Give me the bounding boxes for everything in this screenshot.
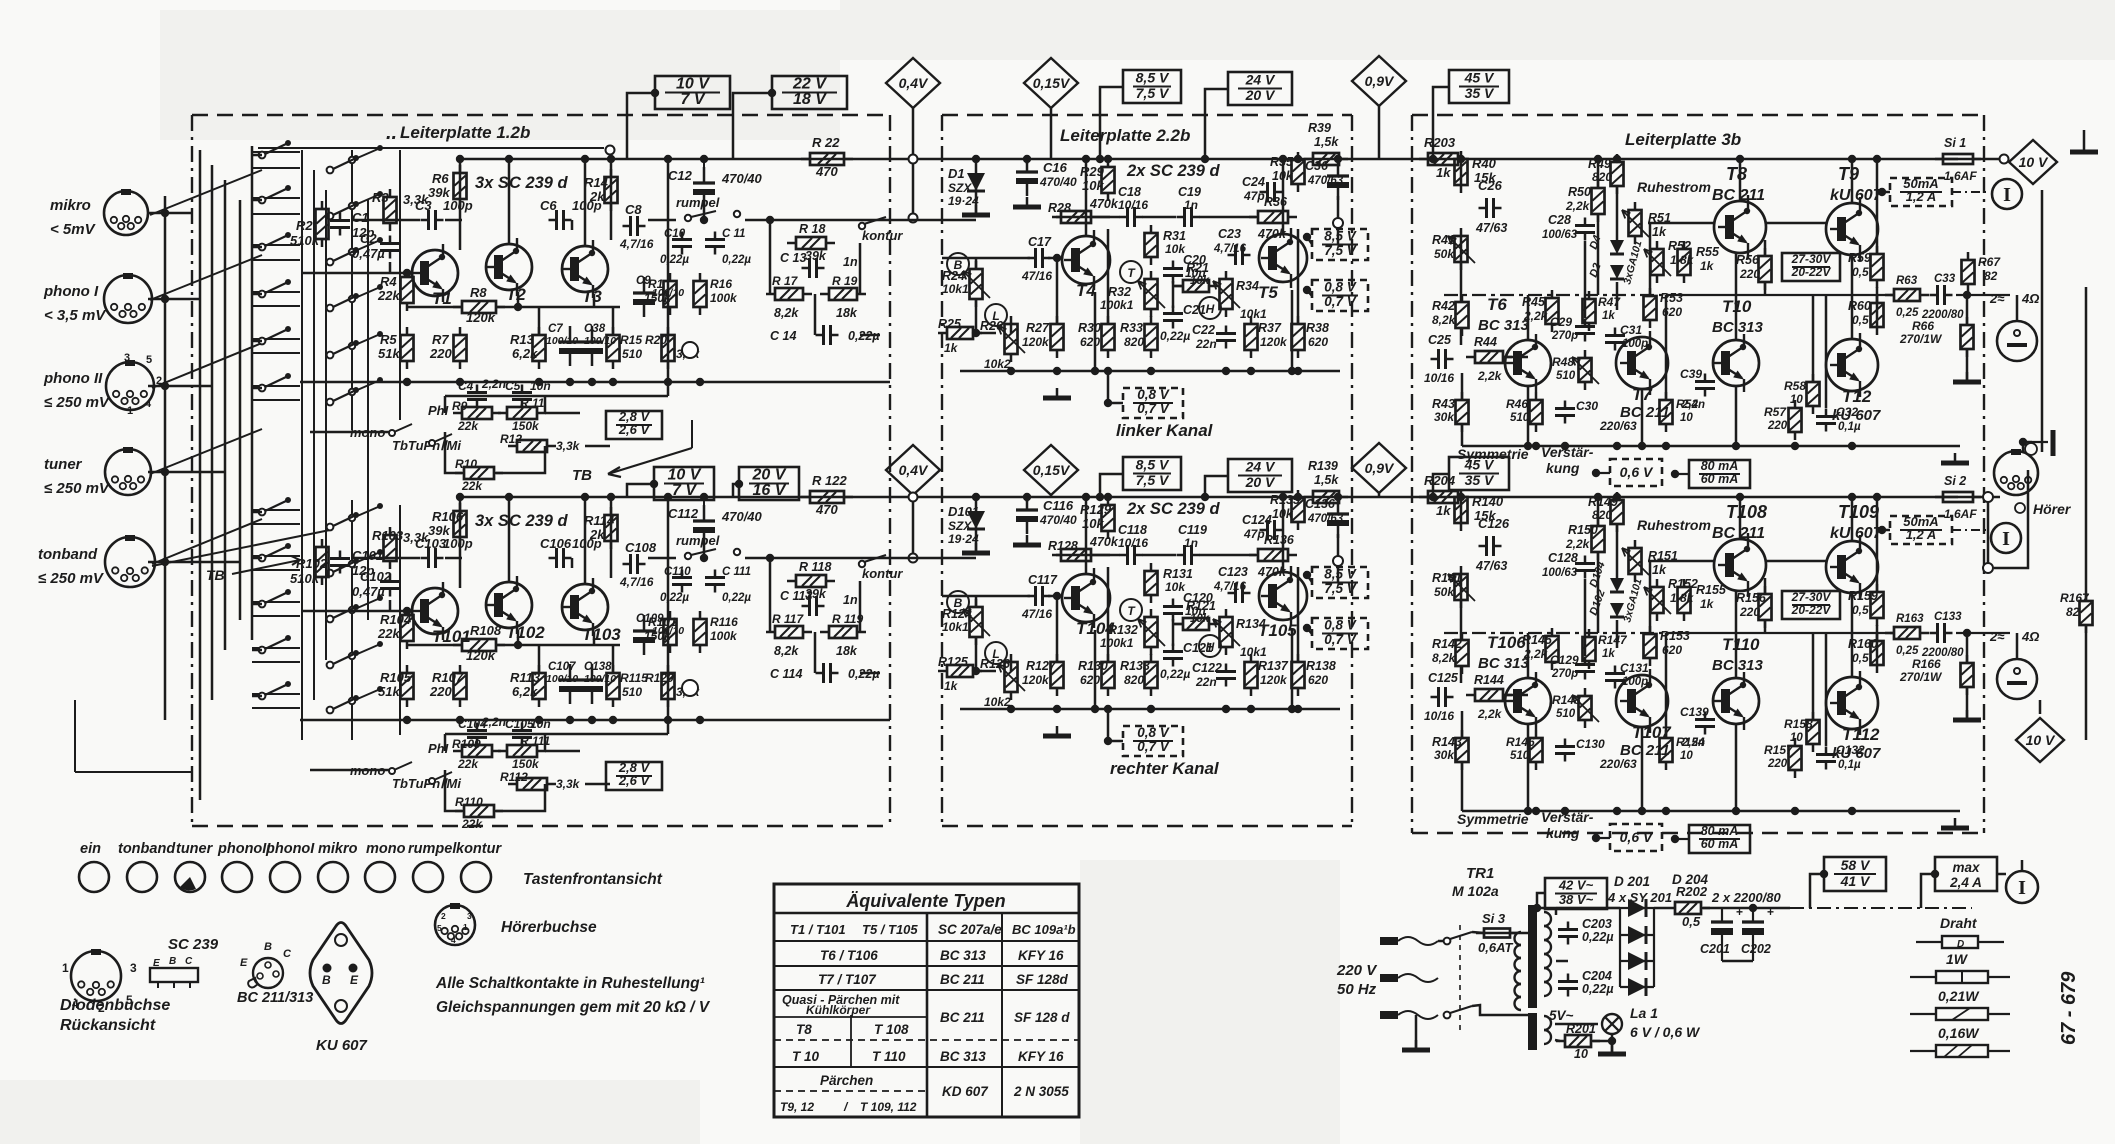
svg-text:R26: R26 [980,319,1004,333]
svg-text:< 3,5 mV: < 3,5 mV [44,307,107,324]
switch contact col2 lower [327,695,359,713]
wire [1461,711,1464,738]
switch kontur [859,223,865,229]
wire R50 col [1597,552,1600,633]
svg-text:220/63: 220/63 [1599,419,1637,433]
wire mono link [310,769,390,772]
svg-text:C125: C125 [1428,671,1459,685]
svg-text:470: 470 [815,502,838,517]
svg-text:R166: R166 [1912,657,1941,671]
wire main supply rail lower [462,496,1958,499]
DIN socket [104,273,152,323]
svg-text:0,8 V: 0,8 V [1324,618,1357,633]
svg-text:7 V: 7 V [672,482,697,499]
wire R58 col [1812,295,1815,382]
voltage label box [1824,857,1886,891]
voltage label box [1123,725,1183,756]
wire [1461,762,1464,811]
wire [508,159,511,244]
svg-text:620: 620 [1080,673,1100,687]
wire H-T link [1173,285,1183,288]
svg-text:R 119: R 119 [832,612,863,626]
switch contact upper bank [259,279,291,297]
svg-text:C117: C117 [1028,573,1058,587]
resistor R31 10k [1145,225,1158,265]
resistor R29 10k [1102,159,1115,201]
svg-text:47/63: 47/63 [1475,221,1507,235]
svg-text:0,7 V: 0,7 V [1324,632,1357,647]
svg-text:R28: R28 [1048,201,1071,215]
svg-text:R50: R50 [1568,185,1591,199]
svg-text:R54: R54 [1676,397,1698,411]
wire [733,484,739,497]
svg-text:C29: C29 [1550,315,1572,329]
resistor R133 820 [1145,654,1158,696]
svg-text:470/40: 470/40 [721,171,763,186]
wire C29 col [1584,579,1587,656]
svg-text:80 mA: 80 mA [1701,459,1739,473]
diode D4 [1610,240,1624,254]
svg-text:10/16: 10/16 [1118,198,1148,212]
svg-text:470/40: 470/40 [721,509,763,524]
wire [1675,838,1689,840]
svg-text:R154: R154 [1676,735,1705,749]
resistor R40 15k [1455,151,1468,193]
svg-text:0,6 V: 0,6 V [1620,464,1654,480]
legend 0,21W resistor [1910,988,2010,1020]
resistor R167 82 [2080,593,2093,633]
wire board3 bottom rail [1462,810,1960,813]
svg-text:TbTuPhⅡMi: TbTuPhⅡMi [392,438,461,453]
wire [584,497,587,584]
capacitor C125 10/16 [1431,687,1454,707]
switch contact col2 [327,340,359,358]
circled L [985,304,1007,326]
svg-text:C109: C109 [636,613,664,625]
switch kontur [859,561,865,567]
svg-text:R147: R147 [1598,633,1628,647]
wire [252,557,262,560]
resistor R146 510 [1530,730,1543,770]
svg-text:C 13: C 13 [780,251,806,265]
svg-text:B: B [264,941,272,953]
svg-text:10/16: 10/16 [1118,536,1148,550]
svg-text:R43: R43 [1432,397,1455,411]
wire R50 col [1597,214,1600,295]
svg-text:22n: 22n [1195,337,1217,351]
wire [1593,1034,1612,1041]
svg-text:C119: C119 [1178,523,1207,537]
svg-text:8,2k: 8,2k [1432,313,1457,327]
svg-text:0,1µ: 0,1µ [1838,759,1861,771]
resistor R159 0,5 [1871,584,1884,626]
trimmer R24 10k1 [970,261,983,307]
svg-text:C25: C25 [1428,333,1452,347]
svg-text:1,6AF: 1,6AF [1944,507,1977,521]
wire C20-C21 [1172,619,1175,646]
trimmer R41 50k [1455,228,1468,270]
mains switch [1444,925,1472,1030]
svg-text:100k: 100k [710,629,738,643]
wire R26 link [976,670,996,673]
svg-text:≤ 250 mV: ≤ 250 mV [44,394,111,411]
svg-text:C 14: C 14 [770,329,796,343]
capacitor C12 470/40 [693,167,715,207]
svg-text:18 V: 18 V [793,91,827,108]
svg-text:1,6AF: 1,6AF [1944,169,1977,183]
voltage label box [1312,567,1368,599]
svg-text:22 V: 22 V [792,76,827,93]
svg-text:0,4V: 0,4V [899,462,929,478]
voltage diamond [1352,56,1406,106]
wire kontur line [745,557,905,560]
svg-text:R30: R30 [1078,321,1101,335]
capacitor C9 100/10 [633,277,655,317]
capacitor C2 0,47µ [380,236,400,259]
svg-text:R142: R142 [1432,637,1462,651]
wire secondary top [1537,907,1620,910]
capacitor C8 4,7/16 [623,216,646,236]
wire [1851,159,1854,203]
wire [1810,874,1824,908]
voltage box 10V/7V [655,76,730,110]
svg-text:+: + [1736,905,1743,919]
switch [429,778,435,784]
wire R24 column [975,596,978,606]
DIN socket [105,447,151,495]
svg-text:51k: 51k [378,684,400,699]
svg-text:Pärchen: Pärchen [820,1073,873,1088]
capacitor C11 0,22µ [705,232,725,255]
svg-text:470k: 470k [1089,197,1119,211]
svg-text:220: 220 [429,346,452,361]
svg-text:C 111: C 111 [722,566,751,578]
svg-text:3: 3 [467,911,472,921]
svg-text:R21: R21 [1186,261,1209,275]
svg-text:0,22µ: 0,22µ [1160,329,1190,343]
svg-text:C32: C32 [1836,405,1858,419]
wire [252,649,262,652]
svg-text:R 19: R 19 [832,274,858,288]
wire R58 col [1812,633,1815,720]
svg-text:50k: 50k [1434,585,1455,599]
svg-text:T109: T109 [1838,502,1879,522]
wire mono link [310,431,390,434]
resistor R8 120k [453,301,505,313]
wire dashdot to meter [1952,191,1990,193]
svg-text:270p: 270p [1551,330,1578,342]
svg-text:2,2k: 2,2k [1565,199,1591,213]
wire [1050,495,1053,497]
svg-text:5V~: 5V~ [1549,1008,1574,1023]
svg-text:2x SC 239 d: 2x SC 239 d [1126,162,1221,180]
svg-text:0,4V: 0,4V [899,75,929,91]
svg-text:Leiterplatte 1.2b: Leiterplatte 1.2b [400,123,530,142]
svg-text:0,22µ: 0,22µ [1582,982,1614,996]
wire T3 emitter [593,632,596,645]
wire [252,293,262,296]
wire [1997,873,2006,876]
svg-text:R131: R131 [1163,567,1193,581]
svg-text:10n: 10n [530,717,551,731]
meter I psu [2006,871,2038,903]
resistor R116 100k [694,611,707,653]
svg-text:C30: C30 [1576,399,1598,413]
svg-text:C108: C108 [625,540,657,555]
svg-text:R8: R8 [470,285,487,300]
svg-text:C138: C138 [584,661,612,673]
voltage label box [1228,459,1292,493]
trimmer R148 510 [1579,688,1592,728]
wire mid bus [407,306,462,309]
transistor T7 [1616,331,1668,395]
svg-text:47p: 47p [1243,189,1265,203]
svg-text:7 V: 7 V [680,91,705,108]
resistor R115 510 [607,665,620,707]
wire board2 bottom bus [960,370,1340,373]
switch contact col2 [327,247,359,265]
svg-text:C 114: C 114 [770,667,802,681]
resistor R5 51k [401,327,414,369]
svg-text:R52: R52 [1668,239,1691,253]
resistor R47 1k [1583,291,1596,331]
wire [1616,524,1619,578]
svg-text:100p: 100p [443,536,473,551]
key button ein [79,862,109,892]
svg-text:R201: R201 [1566,1022,1596,1036]
trimmer R48 510 [1579,350,1592,390]
wire [1460,328,1463,345]
capacitor C33 2200/80 [1930,285,1953,305]
svg-text:R136: R136 [1264,533,1295,547]
wire T4 collector [1085,497,1088,574]
wire R26 link [976,332,996,335]
wire tone loop2 [496,446,545,473]
svg-text:rechter Kanal: rechter Kanal [1110,759,1220,778]
transistor T108 [1714,533,1766,597]
switch contact col2 [327,201,359,219]
svg-text:R128: R128 [1048,539,1078,553]
svg-text:R34: R34 [1236,279,1259,293]
wire [2016,633,2019,659]
resistor R137 120k [1245,654,1258,696]
svg-text:T108: T108 [1726,502,1767,522]
voltage label box [1312,229,1368,261]
svg-text:R20: R20 [645,333,667,347]
wire [1882,529,1890,532]
svg-text:100p: 100p [443,198,473,213]
resistor R112 3,3k [508,778,556,790]
svg-text:T5 / T105: T5 / T105 [862,922,918,937]
diode D202 [1628,926,1646,944]
svg-text:1n: 1n [843,255,858,269]
resistor R55 1k [1678,241,1691,283]
table Aequivalente Typen [774,884,1079,1117]
svg-text:SF 128d: SF 128d [1016,972,1069,987]
wire [1851,593,1854,677]
wire dc distribution [1790,907,1972,909]
svg-text:3x SC 239 d: 3x SC 239 d [475,174,569,192]
svg-text:R105: R105 [380,670,412,685]
svg-text:R44: R44 [1474,335,1497,349]
wire C12 stem dashed [703,500,705,510]
resistor R145 2,2k [1546,628,1559,670]
trimmer R152 1,8k [1651,579,1664,621]
capacitor C114 0,22µ [816,663,839,683]
circled B [947,591,969,613]
trimmer R34 10k1 [1220,271,1233,317]
svg-text:2: 2 [441,911,446,921]
wire [2023,441,2032,444]
svg-text:H: H [1206,302,1215,316]
svg-text:7,5 V: 7,5 V [1136,472,1170,488]
wire C36 col [1337,566,1340,582]
svg-text:R143: R143 [1432,735,1462,749]
label TB with arrow [206,556,300,583]
svg-text:C: C [283,948,292,960]
legend Draht resistor [1916,915,2004,950]
switch [429,440,435,446]
wire [1555,908,1558,915]
svg-text:R134: R134 [1236,617,1266,631]
svg-text:0,1µ: 0,1µ [1838,421,1861,433]
ground [1953,372,1981,382]
svg-text:R148: R148 [1552,693,1581,707]
resistor R54 10 [1660,392,1673,432]
svg-text:10: 10 [1790,394,1803,406]
key button mono [365,862,395,892]
svg-text:C203: C203 [1582,917,1612,931]
wire [627,484,654,497]
wire [1461,424,1464,446]
resistor R60 0,5 [1871,295,1884,335]
svg-text:10 V: 10 V [668,467,702,484]
wire [1100,554,1110,557]
wire T4 collector [1085,159,1088,236]
wire T10 col [1735,591,1738,678]
svg-text:8,5 V: 8,5 V [1136,70,1170,86]
DIN socket [435,903,475,945]
svg-text:470: 470 [815,164,838,179]
svg-text:TB: TB [206,567,225,583]
svg-text:2x SC 239 d: 2x SC 239 d [1126,500,1221,518]
svg-text:E: E [153,958,160,969]
svg-text:C102: C102 [360,569,392,584]
svg-text:mikro: mikro [50,197,91,214]
capacitor C109 100/10 [633,615,655,655]
switch contact upper bank [259,373,291,391]
label TB arrow upper [572,420,692,484]
svg-text:4 x SY 201: 4 x SY 201 [1607,890,1672,905]
svg-text:100p: 100p [572,198,602,213]
wire [769,243,772,294]
circled L [985,642,1007,664]
wire [1527,386,1530,446]
svg-text:4,7/16: 4,7/16 [1213,243,1247,255]
resistor R130 620 [1102,654,1115,696]
resistor R27 120k [1051,316,1064,358]
wire C12 down [703,537,706,558]
svg-text:SF 128 d: SF 128 d [1014,1010,1070,1025]
transistor T105 [1259,566,1307,626]
svg-text:T106: T106 [1487,633,1526,652]
svg-text:kU 607: kU 607 [1830,525,1883,542]
wire [252,154,262,157]
svg-text:T7 / T107: T7 / T107 [818,972,877,987]
svg-text:Gleichspannungen gem mit 20 kΩ: Gleichspannungen gem mit 20 kΩ / V [436,999,711,1016]
transistor T110 [1713,672,1759,730]
wire [252,246,262,249]
switch rumpel [685,553,691,559]
svg-text:220: 220 [1767,420,1788,432]
svg-text:T3: T3 [582,287,602,306]
svg-text:R116: R116 [710,615,738,629]
svg-text:820: 820 [1592,170,1612,184]
capacitor C20 10n [1163,261,1183,284]
resistor R36 470k [1249,211,1297,223]
wire [445,395,545,398]
svg-text:KD 607: KD 607 [942,1084,989,1099]
svg-text:C122: C122 [1192,661,1222,675]
capacitor C132 0,1µ [1816,747,1836,770]
svg-text:27-30V: 27-30V [1791,590,1832,604]
wire [1050,108,1053,159]
svg-text:R38: R38 [1306,321,1329,335]
ground [1013,197,1041,207]
svg-text:R113: R113 [510,670,541,685]
svg-text:B: B [322,973,331,987]
resistor R105 51k [401,665,414,707]
resistor R42 8,2k [1456,294,1469,336]
resistor R50 2,2k [1592,180,1605,222]
wire [1307,628,1312,634]
board frame Leiterplatte 2.2b [942,115,1352,826]
voltage label box [1449,457,1509,491]
resistor R136 470k [1249,549,1297,561]
svg-text:C21: C21 [1183,303,1206,317]
svg-text:8,5 V: 8,5 V [1136,457,1170,473]
wire [571,220,574,230]
capacitor C203 0,22u [1558,922,1578,945]
wire mid line [1444,632,1666,634]
mains terminals [1380,937,1438,1019]
capacitor C113 1n [802,596,825,616]
voltage diamond [2016,718,2064,762]
trimmer R134 10k1 [1220,609,1233,655]
key button tuner [175,862,205,892]
svg-text:R204: R204 [1424,473,1456,488]
svg-text:I: I [2003,184,2011,206]
svg-text:120k: 120k [1260,335,1288,349]
svg-text:1: 1 [62,961,69,975]
svg-text:R157: R157 [1764,743,1794,757]
capacitor C17 47/16 [1028,248,1051,268]
switch contact lower bank [259,543,291,561]
svg-text:kontur: kontur [862,228,903,243]
resistor R150 2,2k [1592,518,1605,560]
wire [1921,874,1935,908]
key button phonoII [222,862,252,892]
wire [1100,87,1123,159]
resistor R25 1k [938,327,982,339]
wire [769,581,772,632]
svg-text:10n: 10n [530,379,551,393]
wire fuse to meter [1972,158,2004,161]
svg-text:0,25: 0,25 [1896,307,1919,319]
voltage diamond [2009,140,2057,184]
speaker [1997,659,2037,699]
svg-text:0,5: 0,5 [1852,651,1869,665]
